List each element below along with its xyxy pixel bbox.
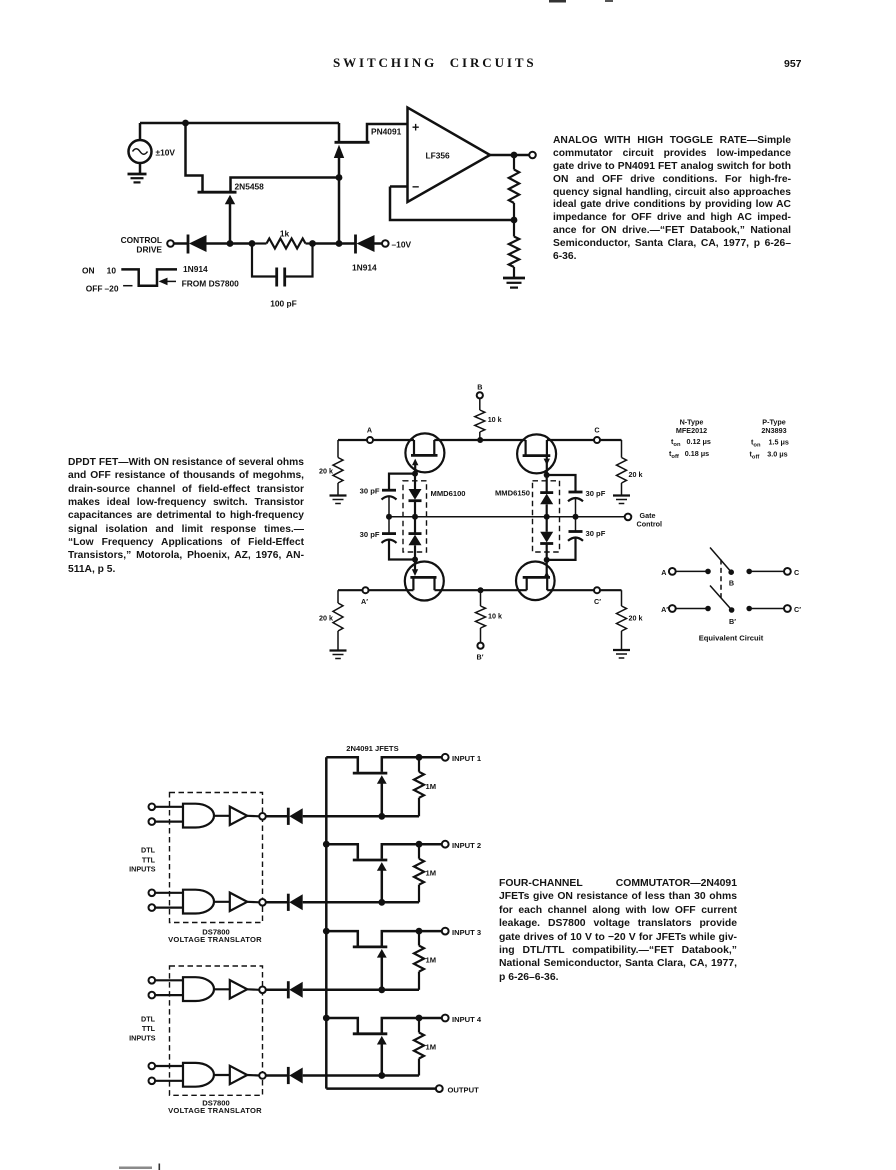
diode D3 (down) (409, 474, 422, 517)
equivalent circuit gang link (dashed) (720, 560, 722, 598)
caption: four-channel commutator (499, 877, 737, 984)
resistor R1 1k (252, 239, 313, 249)
transistor Q2 PN4091 channel bar (335, 141, 370, 144)
diode D1 1N914 (188, 235, 230, 254)
dashed box MMD6150 (533, 481, 560, 552)
svg-text:20 k: 20 k (629, 470, 643, 479)
svg-text:20 k: 20 k (319, 467, 333, 476)
wire ch2 gate row (303, 901, 419, 904)
transistor Q3 gate arrow (N, pointing up) (412, 459, 418, 474)
svg-text:VOLTAGE TRANSLATOR: VOLTAGE TRANSLATOR (168, 935, 262, 944)
transistor Q4 upper-right FET circle (517, 434, 556, 473)
caption: DPDT FET (68, 456, 304, 576)
wire buffer to output ch2 (247, 901, 259, 904)
wire AND to buffer ch2 (214, 901, 230, 903)
svg-text:VOLTAGE TRANSLATOR: VOLTAGE TRANSLATOR (168, 1106, 262, 1115)
transistor 2N4091 ch3 gate with arrow (377, 949, 387, 990)
node bus / channel 4 drain (323, 1015, 330, 1022)
svg-text:2N4091 JFETS: 2N4091 JFETS (346, 744, 398, 753)
transistor Q3 channel bar (411, 454, 438, 457)
capacitor right 30 pF top (568, 492, 583, 517)
svg-text:PN4091: PN4091 (371, 127, 402, 137)
terminal translator output ch3 (259, 987, 266, 994)
node Q5 gate (412, 557, 418, 563)
wire top rail mid segment (434, 439, 525, 441)
capacitor left 30 pF bottom (382, 517, 416, 560)
capacitor left 30 pF top (382, 490, 397, 517)
AND gate ch1 input wires (155, 807, 183, 822)
svg-text:1M: 1M (426, 869, 437, 878)
svg-text:–20: –20 (105, 283, 119, 293)
ground op-amp divider (503, 278, 525, 288)
capacitor C1 plates (277, 268, 285, 287)
transistor 2N4091 ch4 channel bar (353, 1032, 388, 1035)
svg-text:FROM DS7800: FROM DS7800 (182, 278, 240, 288)
terminal B (477, 392, 483, 398)
wire Q4 gate to right cap branch (547, 475, 576, 491)
wire source to ground (139, 163, 142, 174)
terminal B' (477, 643, 483, 649)
node gate line / left diode string (412, 514, 418, 520)
wire op-amp output (490, 154, 529, 157)
diode D2 1N914 (356, 235, 383, 254)
svg-text:C′: C′ (794, 605, 801, 614)
node R1 right (309, 240, 316, 247)
svg-text:DTL: DTL (141, 846, 156, 855)
svg-text:30 pF: 30 pF (586, 489, 606, 498)
svg-text:Equivalent Circuit: Equivalent Circuit (699, 634, 764, 643)
svg-text:20 k: 20 k (319, 614, 333, 623)
wire AND to buffer ch3 (214, 988, 230, 990)
svg-text:Control: Control (637, 520, 663, 529)
svg-text:30 pF: 30 pF (586, 529, 606, 538)
transistor Q5 right lead (433, 578, 435, 590)
terminal translator output ch4 (259, 1072, 266, 1079)
svg-text:1M: 1M (426, 1043, 437, 1052)
node gate line / right diode string (544, 514, 550, 520)
svg-text:ON: ON (82, 265, 95, 275)
transistor 2N4091 ch2 channel bar (353, 859, 388, 862)
equivalent circuit switch blade bottom (710, 586, 731, 610)
node ch2 gate (378, 899, 385, 906)
transistor Q4 gate arrow (P, pointing down) (544, 457, 550, 476)
svg-text:MMD6100: MMD6100 (431, 489, 466, 498)
AND gate ch3 body (183, 977, 214, 1001)
svg-text:B: B (729, 579, 734, 588)
page header (333, 55, 537, 71)
arrow pointing at waveform edge (159, 278, 177, 286)
transistor Q1 2N5458 source lead (231, 178, 339, 193)
resistor 1M ch2 (414, 844, 424, 902)
transistor Q5 gate arrow (N, pointing down) (412, 560, 418, 577)
svg-text:1N914: 1N914 (352, 263, 377, 273)
wire buffer to output ch1 (247, 815, 259, 818)
svg-text:B: B (477, 383, 482, 392)
wire gate node to D2 (339, 242, 356, 245)
transistor 2N4091 ch3 channel bar (353, 946, 388, 949)
svg-text:INPUT 4: INPUT 4 (452, 1015, 482, 1024)
wire buffer to output ch3 (247, 988, 259, 991)
terminal INPUT 3 (442, 928, 449, 935)
terminal control drive (167, 240, 174, 247)
AND gate ch2 input wires (155, 893, 183, 908)
diode ch3 (266, 981, 303, 998)
svg-text:INPUT 1: INPUT 1 (452, 754, 482, 763)
ac source V1 ±10V (129, 140, 152, 163)
equivalent circuit node left bottom (705, 606, 711, 612)
svg-text:B′: B′ (729, 617, 736, 626)
waveform pulse from DS7800 (121, 269, 177, 285)
transistor Q3 source lead (433, 440, 435, 455)
svg-text:100 pF: 100 pF (270, 299, 297, 309)
node Q4 gate (544, 472, 550, 478)
transistor Q3 drain lead (413, 440, 415, 455)
node gate line left end (386, 514, 392, 520)
AND gate ch4 input terminals (149, 1063, 156, 1084)
svg-text:INPUTS: INPUTS (129, 1033, 156, 1042)
equivalent circuit wire C (749, 570, 784, 572)
wire AND to buffer ch1 (214, 815, 230, 817)
transistor Q6 lower-right FET circle (516, 562, 555, 601)
dashed box MMD6100 (403, 481, 427, 552)
svg-text:CONTROL: CONTROL (121, 235, 162, 245)
terminal translator output ch1 (259, 813, 266, 820)
resistor 10 k (B') (476, 590, 486, 642)
node output (511, 152, 518, 159)
equivalent circuit wire A' (676, 608, 708, 610)
equivalent circuit node blade top (728, 569, 734, 575)
transistor 2N4091 ch4 gate with arrow (377, 1036, 387, 1076)
table P-Type 2N3893 (750, 418, 789, 461)
svg-text:2N3893: 2N3893 (761, 426, 786, 435)
svg-text:−: − (412, 180, 419, 194)
svg-text:2N5458: 2N5458 (235, 182, 265, 192)
capacitor right 30 pF bottom (547, 517, 583, 560)
label DTL TTL INPUTS (lower) (129, 1014, 156, 1042)
transistor 2N4091 ch2 gate with arrow (377, 862, 387, 902)
svg-text:MFE2012: MFE2012 (676, 426, 707, 435)
ground top-right (613, 496, 630, 504)
transistor Q6 gate arrow (P, pointing up) (544, 560, 550, 578)
resistor 20 k top-right (617, 440, 627, 495)
transistor Q4 channel bar (523, 454, 551, 457)
buffer ch3 (230, 980, 247, 998)
resistor 10 k (B) (475, 398, 485, 440)
terminal A' (363, 587, 369, 593)
table N-Type MFE2012 (669, 418, 711, 461)
wire buffer to output ch4 (247, 1074, 259, 1077)
equivalent circuit terminal C (784, 568, 799, 577)
transistor Q3 upper-left FET circle (405, 433, 444, 472)
svg-text:30 pF: 30 pF (360, 530, 380, 539)
wire channel 1 drain rail (326, 757, 358, 772)
terminal INPUT 2 (442, 841, 449, 848)
wire bottom rail left segment (338, 589, 413, 591)
svg-text:C: C (794, 568, 799, 577)
wire bottom rail right segment (547, 589, 621, 591)
dashed box DS7800 translator 2 (170, 966, 263, 1095)
transistor 2N4091 ch1 gate with arrow (377, 775, 387, 816)
node B junction on rail (477, 437, 483, 443)
ground under source (128, 174, 147, 182)
equivalent circuit terminal A (661, 568, 675, 577)
diode ch4 (266, 1067, 303, 1084)
svg-text:C: C (594, 426, 599, 435)
AND gate ch3 input terminals (149, 977, 156, 998)
transistor Q2 PN4091 source lead to op-amp (367, 124, 408, 142)
svg-text:A′: A′ (361, 597, 368, 606)
ground top-left (330, 496, 347, 504)
transistor 2N4091 ch1 channel bar (353, 772, 388, 775)
wire ch3 gate row (303, 989, 419, 992)
wire bottom rail mid segment (435, 589, 527, 591)
svg-text:A: A (661, 568, 666, 577)
terminal OUTPUT (436, 1085, 443, 1092)
diode ch1 (266, 808, 303, 825)
svg-text:±10V: ±10V (156, 148, 176, 158)
node ch4 input/1M (416, 1015, 423, 1022)
transistor Q5 lower-left FET circle (405, 562, 444, 601)
AND gate ch2 input terminals (149, 890, 156, 911)
node Q2 gate / Q1 source (336, 174, 343, 181)
ground bottom-left (330, 651, 347, 659)
terminal -10V (382, 240, 389, 247)
wire R1 to gate node (313, 242, 340, 245)
equivalent circuit node right bottom (746, 606, 752, 612)
svg-text:LF356: LF356 (426, 151, 451, 161)
transistor Q4 drain lead (524, 440, 526, 455)
svg-text:INPUTS: INPUTS (129, 865, 156, 874)
AND gate ch2 body (183, 890, 214, 914)
wire common drain bus (325, 757, 328, 1088)
wire inverting input (390, 185, 408, 188)
svg-text:1k: 1k (280, 229, 290, 239)
dashed box DS7800 translator 1 (170, 793, 263, 923)
wire top rail left segment (338, 439, 414, 441)
svg-text:A′: A′ (661, 605, 668, 614)
resistor 20 k bottom-left (333, 590, 343, 650)
wire +10V top rail (140, 122, 339, 125)
node feedback (511, 217, 518, 224)
svg-text:OUTPUT: OUTPUT (448, 1085, 480, 1094)
AND gate ch4 input wires (155, 1066, 183, 1081)
terminal INPUT 1 (442, 754, 449, 761)
transistor Q1 2N5458 gate lead with arrow (225, 195, 235, 244)
transistor 2N4091 ch3 source lead (382, 931, 442, 946)
svg-text:1N914: 1N914 (183, 264, 208, 274)
buffer ch1 (230, 807, 247, 825)
terminal INPUT 4 (442, 1015, 449, 1022)
op-amp U1 LF356 (408, 108, 491, 203)
svg-text:INPUT 2: INPUT 2 (452, 841, 481, 850)
transistor Q6 right lead (546, 578, 548, 590)
resistor 1M ch1 (414, 757, 424, 816)
node ch2 input/1M (416, 841, 423, 848)
caption: analog with high toggle rate (553, 135, 791, 264)
transistor Q5 channel bar (410, 576, 436, 579)
svg-text:1M: 1M (426, 782, 437, 791)
node ch3 gate (378, 986, 385, 993)
wire AND to buffer ch4 (214, 1074, 230, 1076)
node B' junction (478, 587, 484, 593)
node control/Q2 gate column (336, 240, 343, 247)
svg-text:TTL: TTL (142, 1024, 156, 1033)
svg-text:DRIVE: DRIVE (136, 245, 162, 255)
resistor 20 k bottom-right (617, 590, 627, 649)
svg-text:30 pF: 30 pF (360, 487, 380, 496)
transistor Q4 source lead (546, 440, 548, 455)
transistor 2N4091 ch1 source lead (382, 757, 442, 772)
transistor 2N4091 ch2 source lead (382, 844, 442, 859)
equivalent circuit terminal C' (784, 605, 801, 614)
AND gate ch3 input wires (155, 980, 183, 995)
node gate Q1 (227, 240, 234, 247)
resistor R2 (509, 155, 519, 220)
transistor Q2 PN4091 gate with arrow (334, 145, 344, 244)
node ch4 gate (378, 1072, 385, 1079)
equivalent circuit wire A (676, 570, 708, 572)
node rail/2N5458 drain (182, 120, 189, 127)
svg-text:10 k: 10 k (488, 612, 502, 621)
buffer ch2 (230, 893, 247, 911)
wire source top to rail (139, 123, 142, 140)
wire ch4 gate row (303, 1074, 419, 1077)
diode D6 (down) (540, 517, 553, 560)
wire control row (230, 242, 252, 245)
node ch3 input/1M (416, 928, 423, 935)
ground bottom-right (613, 650, 630, 658)
page number (784, 58, 802, 70)
wire gate control line (389, 516, 625, 518)
transistor Q6 channel bar (523, 576, 550, 579)
equivalent circuit node right top (746, 569, 752, 575)
node ch1 input/1M (416, 754, 423, 761)
node Q6 gate (544, 557, 550, 563)
label DTL TTL INPUTS (upper) (129, 846, 156, 874)
node bus / channel 2 drain (323, 841, 330, 848)
svg-text:A: A (367, 426, 372, 435)
svg-text:MMD6150: MMD6150 (495, 489, 530, 498)
svg-text:ton 0.12 μs: ton 0.12 μs (671, 437, 711, 448)
wire terminal to D1 (174, 242, 188, 245)
AND gate ch1 body (183, 804, 214, 828)
terminal C (594, 437, 600, 443)
equivalent circuit wire C' (749, 608, 784, 610)
resistor 1M ch3 (414, 931, 424, 990)
svg-text:1M: 1M (426, 956, 437, 965)
wire channel 3 drain rail (326, 931, 358, 946)
svg-text:–10V: –10V (392, 239, 412, 249)
stray scan mark top (549, 0, 613, 3)
svg-text:toff 0.18 μs: toff 0.18 μs (669, 449, 709, 460)
wire channel 4 drain rail (326, 1018, 358, 1033)
svg-text:toff 3.0 μs: toff 3.0 μs (750, 450, 788, 461)
node Q3 gate (412, 471, 418, 477)
svg-text:+: + (412, 120, 419, 134)
svg-text:OFF: OFF (86, 283, 103, 293)
resistor 20 k top-left (333, 440, 343, 495)
svg-text:ton 1.5 μs: ton 1.5 μs (751, 438, 789, 449)
node bus / channel 3 drain (323, 928, 330, 935)
wire output row (326, 1087, 436, 1090)
transistor Q2 PN4091 drain lead (338, 123, 341, 141)
wire feedback (390, 187, 514, 221)
svg-text:B′: B′ (477, 653, 484, 662)
capacitor C1 100 pF left lead (252, 244, 276, 277)
terminal A (367, 437, 373, 443)
transistor 2N4091 ch4 source lead (382, 1018, 442, 1033)
capacitor C1 right lead (286, 244, 313, 277)
svg-text:20 k: 20 k (629, 614, 643, 623)
terminal translator output ch2 (259, 899, 266, 906)
transistor Q5 left lead (412, 578, 414, 590)
node gate line right cap (573, 514, 579, 520)
resistor R3 (509, 220, 519, 278)
terminal C' (594, 587, 600, 593)
svg-text:C′: C′ (594, 597, 601, 606)
equivalent circuit node blade bottom (729, 607, 735, 613)
equivalent circuit node left top (705, 569, 711, 575)
terminal output (529, 152, 536, 159)
node R1 left (249, 240, 256, 247)
svg-text:10 k: 10 k (488, 415, 502, 424)
transistor Q6 left lead (526, 578, 528, 590)
wire ch1 gate row (303, 815, 419, 818)
AND gate ch4 body (183, 1063, 214, 1087)
wire top rail right segment (547, 439, 622, 441)
wire channel 2 drain rail (326, 844, 358, 859)
diode D4 (up) (409, 517, 422, 560)
diode ch2 (266, 894, 303, 911)
svg-text:10: 10 (107, 265, 117, 275)
diode D5 (up) (540, 475, 553, 517)
svg-text:TTL: TTL (142, 855, 156, 864)
AND gate ch1 input terminals (149, 804, 156, 825)
transistor Q1 2N5458 drain lead (186, 123, 203, 191)
equivalent circuit terminal A' (661, 605, 676, 614)
svg-text:DTL: DTL (141, 1014, 156, 1023)
node ch1 gate (378, 813, 385, 820)
wire Q3 gate to left cap branch (389, 474, 415, 489)
svg-text:INPUT 3: INPUT 3 (452, 928, 481, 937)
resistor 1M ch4 (414, 1018, 424, 1076)
equivalent circuit switch blade top (710, 548, 731, 572)
terminal gate control (625, 514, 632, 521)
transistor Q1 2N5458 channel bar (198, 191, 237, 194)
stray scan mark bottom (119, 1164, 160, 1170)
buffer ch4 (230, 1066, 247, 1084)
